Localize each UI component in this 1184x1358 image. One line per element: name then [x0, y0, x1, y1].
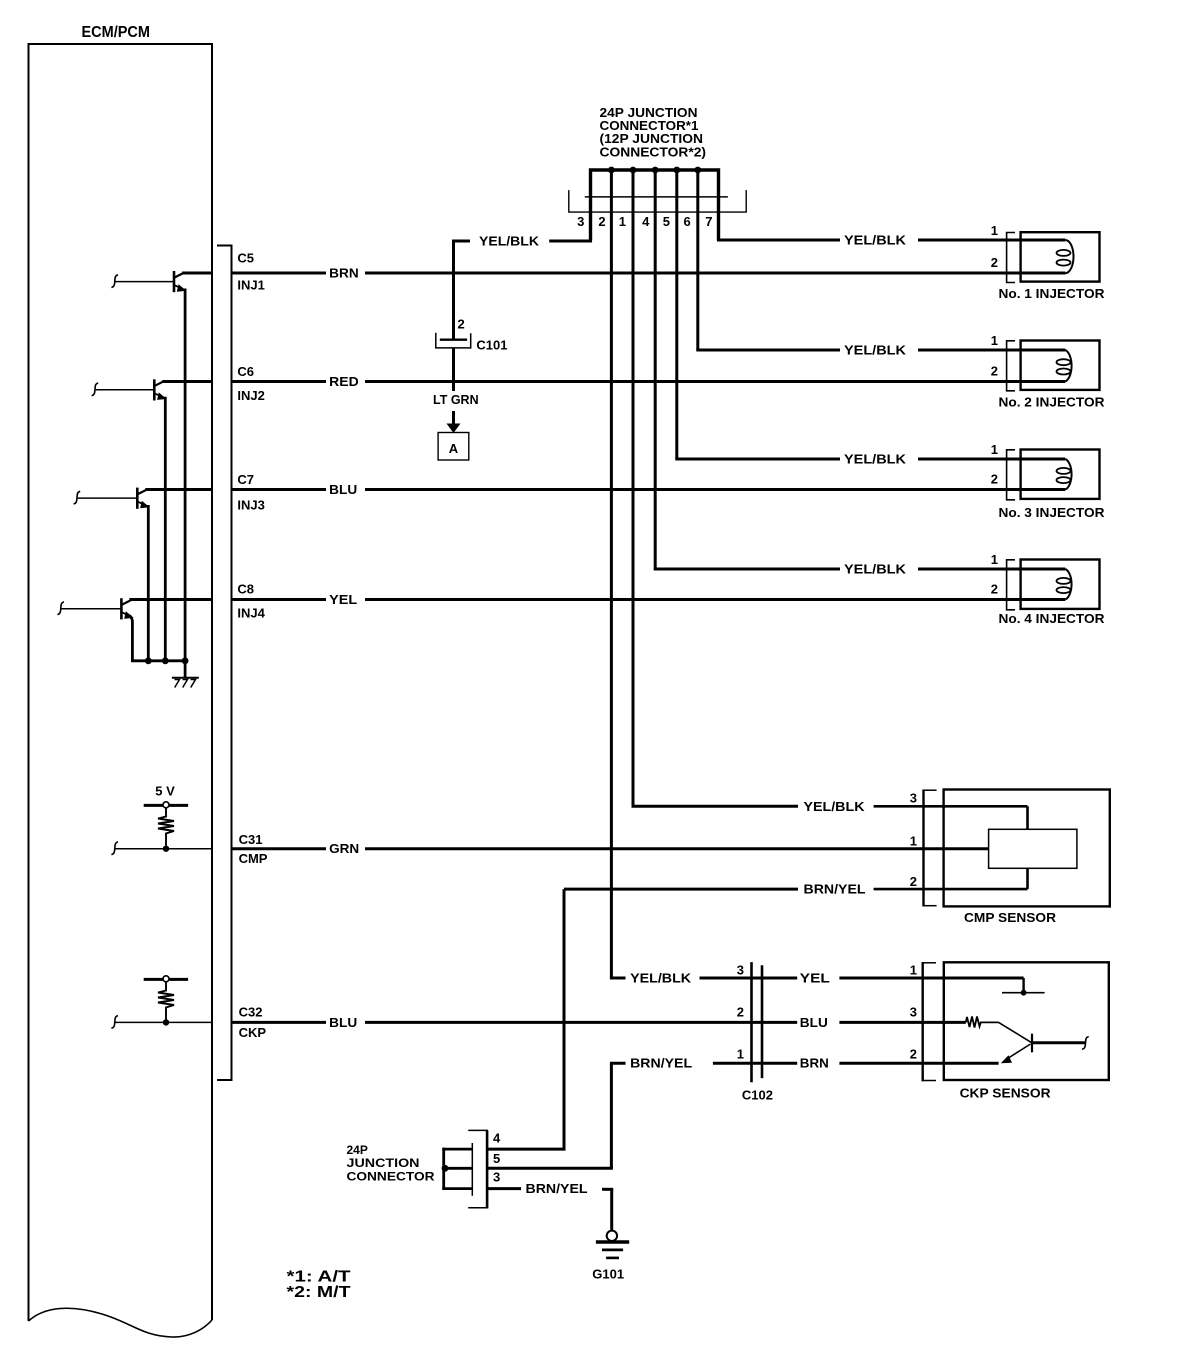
svg-text:YEL/BLK: YEL/BLK — [844, 563, 906, 577]
svg-text:6: 6 — [683, 214, 690, 229]
wire YEL/BLK to injector 2 (from pin 6) — [698, 349, 840, 351]
5V rail (CKP pull-up) — [144, 978, 188, 981]
ECM/PCM box outline with wavy bottom — [29, 44, 213, 1321]
wire pin2 vertical YEL/BLK — [610, 171, 613, 978]
svg-text:C102: C102 — [742, 1088, 773, 1103]
wire pin6 vertical YEL/BLK — [696, 171, 699, 350]
wire C31 base (inside ECM) — [111, 842, 118, 855]
svg-text:INJ3: INJ3 — [237, 498, 264, 513]
terminal circle — [163, 802, 169, 808]
svg-text:INJ4: INJ4 — [237, 606, 265, 621]
connector housing bracket — [569, 190, 746, 212]
5V rail (CMP pull-up) — [144, 804, 188, 807]
CMP sensing element — [989, 829, 1077, 868]
wire to internal ground — [184, 661, 187, 678]
svg-text:*2: M/T: *2: M/T — [287, 1284, 351, 1301]
svg-text:3: 3 — [910, 791, 917, 806]
svg-text:No. 4 INJECTOR: No. 4 INJECTOR — [999, 611, 1106, 626]
CKP internal shield stub — [1002, 978, 1045, 996]
wire BLU C102 to CKP pin 3 — [762, 1021, 797, 1024]
wire YEL/BLK to injector 1 (from pin 7) — [719, 239, 841, 240]
connector C102 — [752, 962, 763, 1082]
wire YEL/BLK to injector 3 (from pin 5) — [677, 458, 840, 460]
No. 3 injector — [991, 442, 1105, 520]
svg-text:YEL/BLK: YEL/BLK — [630, 972, 691, 986]
svg-text:CONNECTOR*2): CONNECTOR*2) — [600, 145, 707, 159]
svg-text:24P JUNCTION: 24P JUNCTION — [600, 106, 698, 120]
wire Q3 emitter vertical — [147, 505, 150, 661]
svg-text:3: 3 — [493, 1170, 500, 1185]
CMP internal wire pin2 — [1026, 868, 1029, 889]
svg-text:2: 2 — [598, 214, 605, 229]
svg-text:INJ2: INJ2 — [237, 388, 264, 403]
svg-text:BLU: BLU — [329, 1016, 357, 1030]
wire pin 3 BRN/YEL to G101 — [487, 1187, 521, 1190]
wire YEL/BLK to CMP pin 3 (from pin 1) — [633, 805, 798, 807]
junction dot emitter bus Q1 — [182, 657, 189, 664]
junction dot CKP pull-up — [163, 1019, 169, 1025]
svg-text:No. 1 INJECTOR: No. 1 INJECTOR — [999, 286, 1106, 301]
wire C7 collector — [145, 488, 212, 491]
wire pin3 YEL/BLK to C101 — [549, 239, 590, 241]
wire pin5 vertical YEL/BLK — [675, 171, 678, 459]
CKP internal pickup symbol — [999, 1022, 1089, 1063]
wire Q2 emitter vertical — [164, 397, 167, 661]
svg-text:YEL/BLK: YEL/BLK — [844, 234, 906, 248]
svg-text:1: 1 — [991, 552, 998, 567]
wire YEL row — [232, 598, 327, 601]
wire BLU row — [232, 488, 327, 491]
svg-text:3: 3 — [910, 1005, 917, 1020]
svg-text:No. 2 INJECTOR: No. 2 INJECTOR — [999, 395, 1106, 410]
svg-text:CKP: CKP — [239, 1025, 267, 1040]
svg-text:5 V: 5 V — [155, 784, 175, 799]
svg-text:5: 5 — [493, 1151, 500, 1166]
junction dot pin 6 — [694, 167, 701, 174]
svg-text:C101: C101 — [476, 338, 507, 353]
wire BRN C102 to CKP pin 2 — [762, 1062, 797, 1065]
junction dot pin 2 — [608, 167, 615, 174]
svg-text:YEL/BLK: YEL/BLK — [479, 235, 539, 249]
wire Q1 emitter vertical — [184, 289, 187, 661]
bottom junction connector body — [468, 1130, 488, 1208]
wire RED row — [232, 380, 327, 383]
svg-text:1: 1 — [991, 223, 998, 238]
wire Q4 emitter elbow — [130, 616, 186, 661]
resistor R2 (CKP pull-up) — [158, 982, 174, 1020]
svg-text:2: 2 — [737, 1005, 744, 1020]
svg-text:BRN: BRN — [800, 1057, 829, 1071]
connector C101 — [440, 339, 467, 341]
svg-text:YEL: YEL — [329, 593, 357, 607]
wire pin 5 to CKP BRN/YEL — [487, 1167, 613, 1170]
svg-text:YEL/BLK: YEL/BLK — [844, 453, 906, 467]
svg-text:2: 2 — [458, 317, 465, 332]
svg-text:BLU: BLU — [329, 483, 357, 497]
transistor Q2 (INJ2 driver) — [92, 379, 167, 400]
svg-text:2: 2 — [991, 364, 998, 379]
svg-text:BRN: BRN — [329, 267, 359, 281]
No. 1 injector — [991, 223, 1105, 301]
terminal circle — [163, 976, 169, 982]
wire pin 4 to CMP BRN/YEL — [487, 1148, 565, 1151]
svg-text:YEL: YEL — [800, 972, 830, 986]
wire pin4 vertical YEL/BLK — [654, 171, 657, 569]
CMP sensor box — [944, 790, 1110, 907]
svg-text:CKP SENSOR: CKP SENSOR — [960, 1086, 1052, 1101]
junction dot CMP pull-up — [163, 846, 169, 852]
svg-text:RED: RED — [329, 375, 359, 389]
svg-text:4: 4 — [642, 214, 650, 229]
wire YEL/BLK to injector 4 (from pin 4) — [655, 568, 840, 570]
transistor Q4 (INJ4 driver) — [57, 598, 133, 619]
svg-text:7: 7 — [705, 214, 712, 229]
svg-text:BRN/YEL: BRN/YEL — [804, 883, 866, 897]
svg-text:YEL/BLK: YEL/BLK — [844, 344, 906, 358]
svg-text:JUNCTION: JUNCTION — [347, 1156, 420, 1170]
wire BLU row (CKP) — [232, 1021, 327, 1024]
No. 4 injector — [991, 552, 1105, 626]
transistor Q3 (INJ3 driver) — [74, 488, 150, 509]
bottom junction connector jumper — [442, 1148, 472, 1190]
svg-text:1: 1 — [991, 333, 998, 348]
CKP internal pickup coil resistor — [966, 1017, 999, 1028]
ECM connector strip — [217, 246, 232, 1081]
junction dot pin 1 — [630, 167, 637, 174]
svg-text:C8: C8 — [237, 582, 254, 597]
svg-text:C5: C5 — [237, 251, 254, 266]
No. 2 injector — [991, 333, 1105, 410]
svg-text:CMP: CMP — [239, 851, 268, 866]
svg-text:1: 1 — [991, 442, 998, 457]
wire C32 base (inside ECM) — [111, 1016, 118, 1029]
junction dot emitter bus Q3 — [145, 657, 152, 664]
wire YEL/BLK to C102 pin 3 (from pin 2) — [611, 977, 625, 979]
svg-text:4: 4 — [493, 1131, 501, 1146]
svg-text:CONNECTOR: CONNECTOR — [347, 1169, 435, 1183]
svg-text:2: 2 — [910, 1047, 917, 1062]
svg-text:C31: C31 — [239, 832, 263, 847]
wire C5 collector — [182, 272, 212, 275]
wire YEL C102 to CKP pin 1 — [762, 977, 797, 980]
svg-text:GRN: GRN — [329, 842, 359, 856]
svg-text:1: 1 — [910, 834, 917, 849]
svg-text:C6: C6 — [237, 364, 254, 379]
svg-text:(12P JUNCTION: (12P JUNCTION — [600, 132, 704, 146]
CMP internal wire pin3 — [1026, 806, 1029, 829]
destination box A — [438, 433, 469, 461]
ground G101 — [596, 1231, 629, 1258]
svg-text:No. 3 INJECTOR: No. 3 INJECTOR — [999, 505, 1106, 520]
wire BRN/YEL vertical to junction connector pin 4 — [563, 889, 566, 1149]
svg-text:CMP SENSOR: CMP SENSOR — [964, 910, 1057, 925]
wire GRN row — [232, 847, 327, 850]
svg-text:YEL/BLK: YEL/BLK — [804, 800, 865, 814]
svg-text:3: 3 — [737, 962, 744, 977]
junction dot emitter bus Q2 — [162, 657, 169, 664]
wire LT GRN below C101 — [452, 348, 455, 391]
wire C8 collector — [129, 598, 212, 601]
svg-text:2: 2 — [991, 472, 998, 487]
svg-text:2: 2 — [991, 255, 998, 270]
CKP connector bracket — [922, 962, 936, 1081]
svg-text:G101: G101 — [592, 1267, 624, 1282]
wire BRN row — [232, 272, 327, 275]
svg-text:2: 2 — [910, 874, 917, 889]
svg-text:A: A — [449, 441, 459, 456]
svg-text:BRN/YEL: BRN/YEL — [526, 1182, 588, 1196]
svg-text:C32: C32 — [239, 1005, 263, 1020]
wire C6 collector — [162, 380, 212, 383]
svg-text:LT GRN: LT GRN — [433, 393, 479, 407]
CMP connector bracket — [923, 790, 937, 907]
svg-text:INJ1: INJ1 — [237, 278, 264, 293]
transistor Q1 (INJ1 driver) — [111, 271, 186, 843]
svg-text:ECM/PCM: ECM/PCM — [82, 24, 151, 41]
junction dot bottom connector — [442, 1165, 449, 1172]
ECM internal ground — [172, 678, 199, 688]
svg-text:1: 1 — [910, 962, 917, 977]
svg-text:1: 1 — [619, 214, 626, 229]
svg-text:CONNECTOR*1: CONNECTOR*1 — [600, 119, 699, 133]
svg-text:3: 3 — [577, 214, 584, 229]
junction connector J1 bus bar — [591, 170, 719, 241]
resistor R1 (CMP pull-up) — [158, 808, 174, 846]
wire pin1 vertical YEL/BLK — [632, 171, 635, 806]
connector face line — [585, 196, 728, 198]
svg-text:5: 5 — [663, 214, 670, 229]
CKP sensor box — [944, 962, 1109, 1080]
svg-text:BRN/YEL: BRN/YEL — [630, 1057, 692, 1071]
wire BRN/YEL from C102 pin 1 — [611, 1063, 625, 1168]
svg-text:BLU: BLU — [800, 1016, 828, 1030]
arrow to A — [452, 411, 455, 425]
svg-text:1: 1 — [737, 1047, 744, 1062]
svg-text:C7: C7 — [237, 472, 254, 487]
wire stub to G101 — [602, 1188, 613, 1191]
junction dot pin 4 — [652, 167, 659, 174]
wire BRN/YEL from CMP pin 2 — [564, 888, 798, 891]
svg-text:*1: A/T: *1: A/T — [287, 1269, 351, 1286]
svg-text:2: 2 — [991, 582, 998, 597]
junction dot pin 5 — [673, 167, 680, 174]
